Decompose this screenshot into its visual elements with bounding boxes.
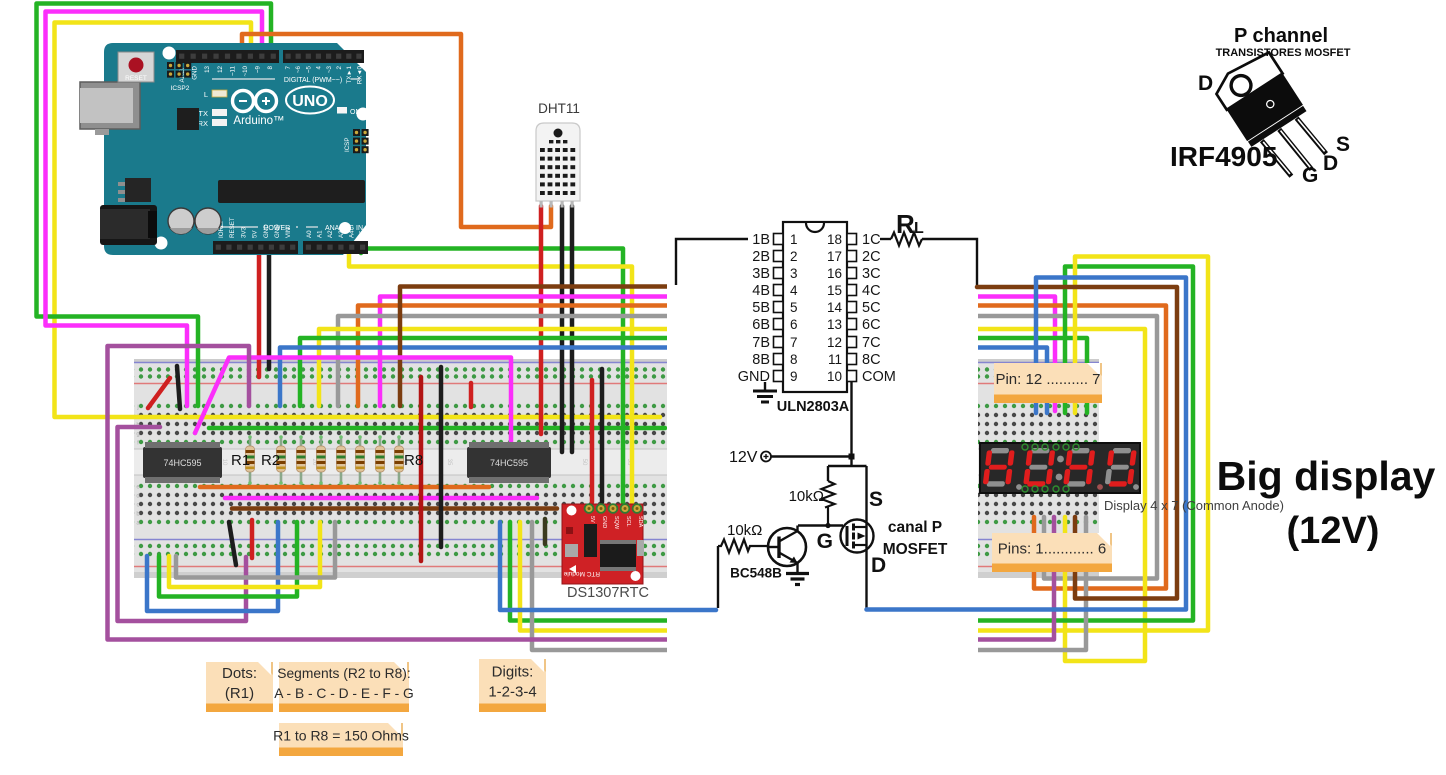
svg-text:R1: R1 [231, 452, 250, 469]
transistor IRF4905 package drawing [1211, 49, 1335, 191]
Arduino ICSP2 header [167, 62, 191, 92]
svg-text:7C: 7C [862, 335, 881, 351]
svg-text:SDA: SDA [637, 516, 643, 528]
svg-text:ICSP: ICSP [344, 138, 351, 152]
svg-text:13: 13 [204, 65, 211, 72]
transistor Q1 BC548B [768, 528, 806, 566]
breadboard main [134, 359, 672, 578]
wire green wire to display pin [300, 338, 1087, 413]
svg-text:c: c [137, 503, 140, 509]
svg-text:Pins: 1............ 6: Pins: 1............ 6 [998, 540, 1106, 557]
wire BC548B emitter to ground [796, 563, 798, 572]
svg-text:R1 to R8 = 150 Ohms: R1 to R8 = 150 Ohms [273, 727, 409, 743]
wire yellow row jumper [55, 23, 661, 418]
wire orange row jumper [200, 485, 489, 490]
svg-text:1C: 1C [862, 232, 881, 248]
wire black wire DHT11 pin4 [570, 206, 575, 452]
svg-text:canal P: canal P [888, 519, 942, 536]
svg-text:L: L [914, 220, 924, 237]
op-amp/driver U1 ULN2803A body [783, 222, 847, 392]
label DIGITAL (PWM~~) [212, 77, 360, 84]
big 7-segment display module [980, 443, 1140, 493]
ULN2803A pin 7 (7B) [752, 335, 797, 351]
wire yellow wire Arduino A4 [349, 253, 632, 503]
wire magenta long wire [195, 358, 511, 446]
Arduino reset button [118, 52, 154, 82]
IC U2 74HC595 [143, 442, 222, 483]
svg-text:6C: 6C [862, 317, 881, 333]
svg-text:1: 1 [366, 123, 370, 130]
svg-text:2C: 2C [862, 249, 881, 265]
svg-text:G: G [1302, 164, 1318, 187]
svg-text:(12V): (12V) [1287, 510, 1380, 552]
svg-text:D: D [1198, 72, 1213, 95]
label RL [896, 209, 924, 239]
svg-text:P channel: P channel [1234, 25, 1328, 47]
svg-text:17: 17 [827, 249, 842, 264]
ULN2803A pin 6 (6B) [752, 317, 797, 333]
svg-text:7: 7 [285, 65, 292, 69]
svg-text:74HC595: 74HC595 [163, 458, 201, 468]
wire blue wire MOSFET drain to display board [867, 278, 1187, 610]
DS1307 RTC module [562, 504, 644, 584]
svg-text:R2: R2 [261, 452, 280, 469]
wire red wire Arduino 5V [257, 253, 262, 377]
node gate junction [825, 523, 830, 528]
svg-text:14: 14 [827, 300, 843, 315]
svg-text:DIGITAL (PWM~~): DIGITAL (PWM~~) [284, 77, 342, 84]
wire magenta wire to display pin [380, 297, 1055, 412]
wire black rail-to-rail vertical [439, 367, 444, 547]
ULN2803A pin 5 (5B) [752, 300, 797, 316]
ULN2803A pin 3 (3B) [752, 266, 797, 282]
wire MOSFET drain down to blue wire [865, 545, 867, 609]
svg-text:MOSFET: MOSFET [883, 541, 948, 558]
svg-text:G: G [817, 530, 833, 553]
svg-text:TRANSISTORES MOSFET: TRANSISTORES MOSFET [1216, 47, 1351, 59]
resistor R8 150 Ohm [395, 435, 404, 485]
wire black diagonal top-left [177, 366, 180, 409]
svg-text:Arduino™: Arduino™ [233, 115, 284, 127]
ULN2803A pin 10 (COM) [827, 369, 896, 385]
svg-text:1-2-3-4: 1-2-3-4 [488, 683, 536, 700]
svg-text:COM: COM [862, 369, 896, 385]
svg-text:3C: 3C [862, 266, 881, 282]
breadboard row letters [136, 405, 140, 527]
ULN2803A pin 18 (1C) [827, 232, 881, 248]
ULN2803A pin 11 (8C) [828, 352, 881, 368]
wire ULN 1B to brown wire [676, 239, 748, 285]
wire red wire RTC 5V [590, 380, 595, 502]
wire black wire Arduino GND [267, 253, 272, 369]
svg-text:8C: 8C [862, 352, 881, 368]
wire yellow U wire [169, 522, 320, 587]
node 12V junction [849, 454, 855, 460]
wire magenta wire Arduino pin9 loop [46, 12, 263, 407]
resistor RL [891, 233, 922, 246]
ground symbol at ULN pin 9 [753, 382, 777, 402]
svg-text:R: R [896, 209, 915, 239]
Arduino ICSP header [344, 123, 370, 153]
wire green row jumper [209, 426, 665, 431]
svg-text:50: 50 [581, 459, 587, 466]
svg-text:SQW: SQW [613, 516, 619, 530]
svg-text:2: 2 [790, 249, 798, 264]
svg-text:12V: 12V [729, 449, 758, 466]
resistor R1 150 Ohm [246, 435, 255, 485]
svg-text:Segments (R2 to R8):: Segments (R2 to R8): [277, 666, 410, 681]
svg-text:5C: 5C [862, 300, 881, 316]
svg-text:1B: 1B [752, 232, 770, 248]
white schematic background panel [667, 196, 978, 688]
svg-text:A0: A0 [306, 230, 313, 238]
svg-text:Digits:: Digits: [492, 663, 534, 680]
ULN2803A pin 17 (2C) [827, 249, 881, 265]
label POWER [218, 225, 298, 232]
transistor Q2 MOSFET canal P [841, 520, 874, 553]
wire green long bottom loop [510, 267, 1193, 621]
ULN2803A pin 9 (GND) [738, 369, 798, 385]
svg-text:6: 6 [790, 317, 798, 332]
wire red stub near chip2 [469, 383, 474, 407]
ULN2803A pin 15 (4C) [827, 283, 881, 299]
svg-text:DS1307RTC: DS1307RTC [567, 585, 649, 601]
svg-text:5: 5 [790, 300, 798, 315]
svg-text:6B: 6B [752, 317, 770, 333]
wire black diagonal bottom-left [229, 522, 236, 565]
DHT11 sensor [536, 123, 580, 208]
svg-text:R8: R8 [404, 452, 423, 469]
note dots R1 [206, 662, 273, 712]
svg-text:ULN2803A: ULN2803A [777, 399, 850, 415]
wire green wire Arduino pin8 loop [37, 4, 272, 407]
svg-text:9: 9 [790, 369, 798, 384]
breadboard column numbers [176, 459, 632, 466]
svg-text:L: L [204, 90, 208, 99]
svg-text:IRF4905: IRF4905 [1170, 141, 1277, 172]
svg-text:10kΩ: 10kΩ [727, 522, 762, 539]
svg-text:13: 13 [827, 317, 842, 332]
note digits [479, 659, 546, 712]
svg-text:4: 4 [790, 283, 798, 298]
resistor 10k base [718, 540, 769, 553]
wire gray wire to display pin [338, 316, 1157, 579]
wire black stub near RTC [543, 519, 548, 544]
svg-text:UNO: UNO [292, 93, 328, 110]
wire brown wire RL junction to display pin [977, 287, 1177, 599]
resistor R4 150 Ohm [317, 435, 326, 485]
svg-text:7B: 7B [752, 335, 770, 351]
note display bottom pins [992, 533, 1112, 572]
wire BC548B collector to gate node [796, 526, 798, 532]
svg-text:D: D [1323, 152, 1338, 175]
Arduino header power [213, 241, 298, 254]
svg-text:DHT11: DHT11 [538, 101, 580, 116]
svg-text:Display 4 x 7 (Common Anode): Display 4 x 7 (Common Anode) [1104, 498, 1284, 513]
svg-text:RX: RX [198, 119, 208, 128]
wire green wire Arduino A5 [361, 249, 623, 504]
svg-text:10kΩ: 10kΩ [789, 488, 824, 505]
capacitor C1 [168, 208, 194, 234]
wire red stub near R1 [250, 520, 255, 558]
ground symbol at BC548B emitter [786, 574, 809, 585]
svg-text:12: 12 [827, 335, 842, 350]
wire RL to brown wire [922, 239, 977, 286]
ULN2803A pin 13 (6C) [827, 317, 881, 333]
ULN2803A pin 2 (2B) [752, 249, 797, 265]
wire purple U wire [118, 427, 247, 621]
Arduino USB connector [80, 82, 140, 135]
svg-text:g: g [136, 432, 139, 438]
Arduino header digital 8-13 [176, 50, 279, 63]
svg-text:16: 16 [827, 266, 842, 281]
svg-text:5V: 5V [252, 230, 259, 238]
svg-text:8: 8 [790, 352, 798, 367]
wire purple long wire [108, 346, 1055, 640]
svg-text:~10: ~10 [242, 65, 249, 76]
Arduino logo [233, 87, 335, 114]
svg-text:2: 2 [336, 65, 343, 69]
note display top pins [994, 363, 1102, 403]
svg-text:S: S [869, 488, 883, 511]
svg-text:SCL: SCL [625, 516, 631, 527]
svg-text:GND: GND [601, 516, 607, 528]
wire blue long bottom wire left [500, 522, 716, 610]
wire magenta row jumper [225, 496, 537, 501]
svg-text:BC548B: BC548B [730, 566, 782, 581]
resistor R7 150 Ohm [376, 435, 385, 485]
resistor R3 150 Ohm [297, 435, 306, 485]
wire 12V to junction [771, 455, 852, 457]
Arduino power jack [100, 205, 157, 245]
svg-text:74HC595: 74HC595 [490, 458, 528, 468]
svg-text:Dots:: Dots: [222, 665, 257, 682]
svg-text:Pin: 12 .......... 7: Pin: 12 .......... 7 [995, 371, 1100, 388]
svg-text:12: 12 [217, 65, 224, 72]
svg-text:ICSP2: ICSP2 [171, 85, 190, 92]
wire ULN COM down [850, 382, 852, 466]
svg-text:18: 18 [827, 232, 842, 247]
svg-text:~11: ~11 [229, 65, 236, 76]
svg-text:~6: ~6 [295, 65, 302, 73]
svg-text:3V3: 3V3 [240, 226, 247, 238]
svg-text:A - B - C - D - E - F - G: A - B - C - D - E - F - G [274, 686, 414, 701]
resistor R6 150 Ohm [356, 435, 365, 485]
svg-text:~3: ~3 [326, 65, 333, 73]
svg-text:2B: 2B [752, 249, 770, 265]
svg-text:POWER: POWER [264, 225, 290, 232]
wire orange wire Arduino pin11 to DHT11 [242, 34, 551, 227]
ULN2803A pin 8 (8B) [752, 352, 797, 368]
svg-text:ANALOG IN: ANALOG IN [325, 225, 363, 232]
ULN2803A pin 14 (5C) [827, 300, 881, 316]
svg-text:8B: 8B [752, 352, 770, 368]
svg-text:1: 1 [790, 232, 798, 247]
wire blue wire to display pin [280, 348, 1047, 414]
wire brown row jumper [232, 506, 557, 511]
wire yellow wire to display pin [319, 329, 1145, 661]
wire gray U wire [176, 522, 335, 578]
svg-text:RESET: RESET [125, 75, 147, 82]
svg-text:3B: 3B [752, 266, 770, 282]
svg-text:4C: 4C [862, 283, 881, 299]
wire brown wire to ULN 1B [400, 287, 672, 407]
svg-text:j: j [136, 405, 138, 411]
label ANALOG IN [306, 225, 363, 232]
wire red wire DHT11 pin1 [539, 206, 544, 434]
wire green U wire [159, 522, 297, 597]
wire gray long bottom wire [532, 517, 1086, 650]
svg-text:(R1): (R1) [225, 685, 254, 702]
svg-text:15: 15 [827, 283, 842, 298]
ULN2803A pin 16 (3C) [827, 266, 881, 282]
resistor 10k pullup [822, 481, 835, 525]
Arduino header digital 0-7 [283, 50, 364, 63]
wire black wire DHT11 pin3 [560, 206, 565, 452]
12V supply [729, 449, 771, 466]
capacitor C2 [195, 208, 221, 234]
note segments [274, 662, 414, 712]
Arduino L TX RX LEDs [198, 90, 227, 128]
wire orange wire to display pin [358, 306, 1166, 589]
wire red diagonal top-left [148, 378, 170, 408]
svg-text:TX►1: TX►1 [346, 65, 353, 83]
wire blue U wire [147, 522, 278, 611]
label IOREF RESET small ticks [103, 42, 105, 44]
wire red rail-to-rail vertical [419, 377, 424, 561]
svg-text:RTC Module: RTC Module [563, 570, 600, 577]
Arduino regulator [118, 178, 151, 202]
ULN2803A pin 12 (7C) [827, 335, 881, 351]
svg-text:4: 4 [316, 65, 323, 69]
svg-text:35: 35 [446, 459, 452, 466]
resistor R2 150 Ohm [277, 435, 286, 485]
svg-text:5V: 5V [589, 516, 595, 523]
Arduino small chip [177, 108, 199, 130]
Arduino ON LED [337, 107, 361, 116]
svg-text:RX◄0: RX◄0 [356, 65, 363, 84]
IC U3 74HC595 [467, 442, 551, 483]
svg-text:~5: ~5 [305, 65, 312, 73]
note resistor value [273, 723, 409, 756]
svg-text:10: 10 [827, 369, 842, 384]
wire gate line [798, 524, 843, 526]
resistor R5 150 Ohm [337, 435, 346, 485]
svg-text:d: d [136, 494, 139, 500]
ULN2803A pin 1 (1B) [752, 232, 797, 248]
svg-text:Big display: Big display [1217, 453, 1436, 499]
svg-text:4B: 4B [752, 283, 770, 299]
wire tee to S and pullup [828, 465, 867, 467]
svg-text:GND: GND [192, 65, 199, 79]
svg-text:TX: TX [198, 109, 208, 118]
svg-text:ON: ON [350, 109, 361, 116]
breadboard display-section [978, 359, 1099, 578]
wire base resistor down to blue wire [717, 546, 719, 608]
Arduino MCU chip [218, 180, 365, 203]
svg-text:5B: 5B [752, 300, 770, 316]
svg-text:11: 11 [828, 352, 842, 367]
Arduino header analog in [303, 241, 368, 254]
wire black wire RTC GND [600, 369, 605, 502]
wire yellow long bottom loop [520, 257, 1208, 631]
Arduino UNO board [104, 43, 370, 255]
ULN2803A pin 4 (4B) [752, 283, 798, 299]
svg-text:A1: A1 [317, 230, 324, 238]
svg-text:3: 3 [790, 266, 798, 281]
wire ULN 1C to RL [880, 238, 891, 240]
svg-text:7: 7 [790, 335, 798, 350]
svg-text:8: 8 [267, 65, 274, 69]
svg-text:~9: ~9 [255, 65, 262, 73]
